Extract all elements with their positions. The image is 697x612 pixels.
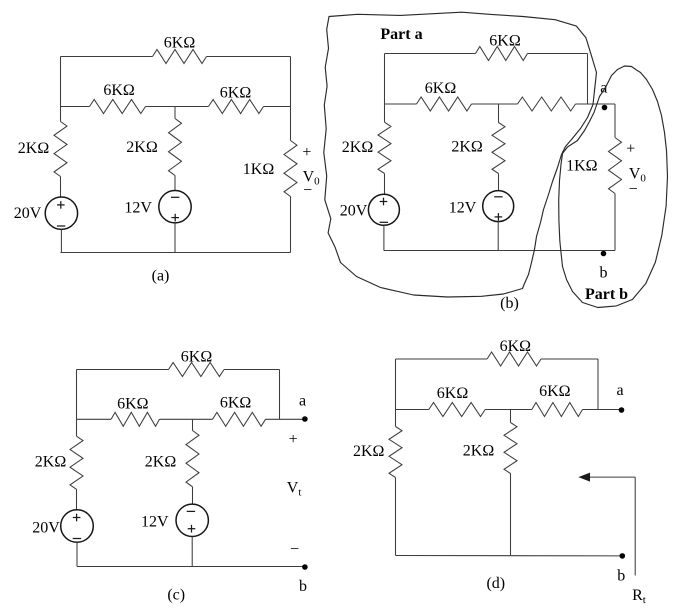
svg-text:6KΩ: 6KΩ — [220, 85, 252, 102]
svg-text:b: b — [600, 265, 608, 282]
svg-text:−: − — [629, 181, 638, 198]
svg-text:a: a — [616, 382, 623, 399]
svg-text:Part a: Part a — [380, 26, 422, 43]
svg-text:−: − — [290, 541, 299, 558]
svg-text:a: a — [299, 393, 306, 410]
svg-text:+: + — [289, 431, 298, 448]
svg-text:2KΩ: 2KΩ — [451, 138, 483, 155]
svg-text:20V: 20V — [32, 519, 60, 536]
svg-text:(a): (a) — [152, 268, 170, 285]
svg-text:6KΩ: 6KΩ — [489, 33, 521, 50]
svg-text:2KΩ: 2KΩ — [18, 140, 50, 157]
svg-text:6KΩ: 6KΩ — [117, 395, 149, 412]
svg-text:−: − — [303, 182, 312, 199]
svg-text:2KΩ: 2KΩ — [463, 443, 495, 460]
svg-text:2KΩ: 2KΩ — [353, 443, 385, 460]
svg-text:(c): (c) — [167, 586, 185, 603]
svg-text:12V: 12V — [449, 200, 477, 217]
svg-text:2KΩ: 2KΩ — [35, 454, 67, 471]
svg-text:2KΩ: 2KΩ — [126, 139, 158, 156]
svg-text:+: + — [302, 144, 311, 161]
svg-text:6KΩ: 6KΩ — [500, 338, 532, 355]
svg-text:1KΩ: 1KΩ — [243, 161, 275, 178]
svg-text:6KΩ: 6KΩ — [539, 383, 571, 400]
svg-text:6KΩ: 6KΩ — [437, 385, 469, 402]
svg-text:1KΩ: 1KΩ — [566, 158, 598, 175]
svg-text:2KΩ: 2KΩ — [145, 454, 177, 471]
svg-text:20V: 20V — [340, 203, 368, 220]
svg-text:12V: 12V — [124, 199, 152, 216]
svg-text:12V: 12V — [141, 513, 169, 530]
svg-text:+: + — [626, 140, 635, 157]
svg-text:b: b — [617, 567, 625, 584]
svg-text:(d): (d) — [486, 575, 505, 592]
svg-text:(b): (b) — [500, 295, 519, 312]
svg-text:6KΩ: 6KΩ — [181, 348, 213, 365]
svg-text:6KΩ: 6KΩ — [103, 82, 135, 99]
svg-text:6KΩ: 6KΩ — [164, 35, 196, 52]
svg-text:6KΩ: 6KΩ — [220, 395, 252, 412]
svg-text:6KΩ: 6KΩ — [425, 80, 457, 97]
svg-text:Part b: Part b — [585, 286, 628, 303]
svg-text:20V: 20V — [14, 205, 42, 222]
svg-text:2KΩ: 2KΩ — [342, 139, 374, 156]
svg-text:b: b — [299, 578, 307, 595]
